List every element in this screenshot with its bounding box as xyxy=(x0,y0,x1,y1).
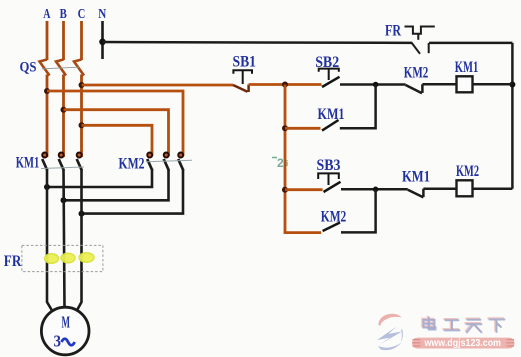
wire SB2 to KM2 NC xyxy=(340,83,406,86)
svg-text:SB3: SB3 xyxy=(317,157,341,174)
motor M xyxy=(41,307,89,355)
watermark banner xyxy=(412,338,515,350)
node A crossover junction xyxy=(44,88,50,94)
wire rail to KM1 aux xyxy=(285,127,321,130)
svg-text:KM2: KM2 xyxy=(321,209,347,226)
watermark small xyxy=(272,156,288,170)
node B lower junction xyxy=(61,197,67,203)
svg-text:A: A xyxy=(43,7,51,22)
contactor KM2 pole 2 xyxy=(164,153,169,171)
wire KM2 pole2 to phase B xyxy=(64,170,169,200)
node N junction xyxy=(99,39,106,46)
pushbutton SB2 NO contact xyxy=(322,77,340,87)
node A lower junction xyxy=(44,184,50,190)
node SB3 branch junction xyxy=(373,187,379,193)
switch QS pole B xyxy=(56,60,66,76)
wire B to KM2 pole2 xyxy=(64,110,169,156)
wire phase A top xyxy=(46,21,49,60)
wire KM2 aux loop xyxy=(341,189,376,232)
node right rail junction xyxy=(509,82,515,88)
svg-text:2: 2 xyxy=(277,156,284,170)
QS linkage bar xyxy=(42,67,79,69)
contact KM2 NC xyxy=(406,84,423,93)
svg-text:KM2: KM2 xyxy=(119,156,145,173)
wire motor lead U xyxy=(47,170,54,313)
KM1 linkage bar xyxy=(41,167,84,169)
svg-text:KM1: KM1 xyxy=(455,59,479,76)
KM2 linkage bar xyxy=(146,160,192,162)
watermark logo mark xyxy=(377,314,403,350)
contactor KM1 pole A xyxy=(42,153,47,171)
svg-text:FR: FR xyxy=(4,253,22,270)
watermark text dgtx xyxy=(422,317,503,332)
contact KM2 aux NO xyxy=(323,223,340,232)
wire KM2 pole1 to phase A xyxy=(47,170,152,187)
svg-text:KM1: KM1 xyxy=(16,155,40,172)
wire phase A mid xyxy=(46,75,49,158)
pushbutton SB1 actuator xyxy=(233,70,252,84)
coil KM2 xyxy=(457,180,473,196)
wire KM1 aux loop xyxy=(340,85,376,129)
svg-text:i: i xyxy=(286,159,288,168)
wire KM2 pole3 to phase C xyxy=(82,170,184,214)
node control rail top junction xyxy=(282,82,288,88)
wire phase C top xyxy=(80,21,83,60)
svg-text:FR: FR xyxy=(385,23,401,40)
node control feed junction on C xyxy=(79,82,85,88)
wire phase C mid xyxy=(80,75,83,158)
FR heater element 1 xyxy=(45,254,59,264)
thermal relay FR heater box xyxy=(22,245,103,271)
svg-text:N: N xyxy=(98,7,106,22)
switch QS pole C xyxy=(74,60,84,76)
pushbutton SB3 actuator xyxy=(318,173,339,185)
svg-text:KM2: KM2 xyxy=(404,65,429,82)
wire N vertical xyxy=(101,21,104,59)
thermal relay FR contact xyxy=(405,27,435,54)
wire KM2NC to coil KM1 xyxy=(422,83,456,86)
wire motor lead V xyxy=(64,170,65,308)
wire FR to right rail xyxy=(429,42,512,45)
wire C to KM2 pole1 xyxy=(82,125,153,156)
FR heater element 3 xyxy=(79,253,94,263)
wire right rail xyxy=(511,43,514,189)
contactor KM1 pole C xyxy=(77,153,82,171)
wire rail bottom to KM2 aux xyxy=(285,231,321,232)
contactor KM2 pole 3 xyxy=(178,153,183,171)
wire phase B top xyxy=(62,21,65,60)
svg-text:KM1: KM1 xyxy=(402,168,430,185)
node B crossover junction xyxy=(61,107,67,113)
pushbutton SB1 NC contact xyxy=(233,85,249,93)
node C crossover junction xyxy=(79,122,85,128)
pushbutton SB2 actuator xyxy=(319,69,339,80)
node rail aux1 junction xyxy=(282,125,288,131)
coil KM1 xyxy=(457,76,473,92)
wire phase B mid xyxy=(62,75,65,158)
contactor KM1 pole B xyxy=(59,153,64,171)
contactor KM2 pole 1 xyxy=(147,153,152,171)
wire coil KM2 to right rail xyxy=(473,187,513,190)
svg-text:KM2: KM2 xyxy=(456,163,479,180)
wire motor lead W xyxy=(76,170,82,313)
svg-text:3: 3 xyxy=(54,332,62,351)
svg-text:M: M xyxy=(62,313,71,332)
FR heater element 2 xyxy=(61,253,75,263)
wire rail to SB3 xyxy=(285,188,323,191)
switch QS pole A xyxy=(40,60,50,76)
svg-text:C: C xyxy=(78,7,86,22)
wire control feed to SB1 xyxy=(82,84,234,87)
node SB2 branch junction xyxy=(373,82,379,88)
svg-text:KM1: KM1 xyxy=(318,106,345,123)
wire SB3 to KM1 NC xyxy=(341,188,408,191)
contact KM1 aux NO xyxy=(322,120,339,131)
pushbutton SB3 NO contact xyxy=(324,182,341,192)
svg-text:QS: QS xyxy=(20,60,37,76)
contact KM1 NC xyxy=(408,189,424,198)
wire coil KM1 to right rail xyxy=(473,83,513,86)
svg-text:www.dgjs123.com: www.dgjs123.com xyxy=(424,338,502,349)
node rail SB3 junction xyxy=(282,187,288,193)
wire A to KM2 pole3 xyxy=(47,91,183,156)
wire N horizontal xyxy=(103,41,413,44)
wire control left rail xyxy=(284,85,287,233)
wire SB1 to rail junction xyxy=(249,83,322,86)
svg-text:SB1: SB1 xyxy=(233,53,257,70)
wire KM1NC to coil KM2 xyxy=(423,187,456,190)
svg-text:B: B xyxy=(60,7,67,22)
node C lower junction xyxy=(79,211,85,217)
